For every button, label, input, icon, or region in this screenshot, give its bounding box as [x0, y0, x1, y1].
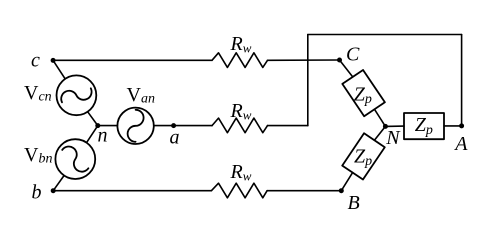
svg-text:N: N [385, 127, 401, 149]
node c junction dot [51, 58, 56, 63]
svg-text:C: C [346, 44, 360, 66]
impedance Zp phase C box [342, 70, 385, 116]
svg-text:A: A [453, 133, 468, 155]
wire Van to node a [154, 125, 174, 127]
wire c to top resistor [53, 59, 212, 61]
node N junction dot [383, 124, 388, 129]
wire Zp upper to node N [375, 109, 386, 126]
wire a to middle resistor [174, 125, 212, 127]
node n junction dot [95, 123, 100, 128]
wire bottom resistor to node B [267, 190, 341, 192]
wire Zp lower to node N [374, 126, 385, 140]
wire node N to impedance Zp right [385, 125, 404, 127]
wire Zp right to node A [444, 125, 462, 127]
resistor R_w top [212, 53, 268, 68]
svg-text:a: a [170, 127, 180, 149]
svg-text:b: b [32, 181, 42, 203]
wire middle resistor to corner [268, 125, 308, 127]
wire Vcn to node n [88, 112, 98, 126]
svg-text:n: n [98, 125, 108, 147]
svg-text:c: c [31, 50, 40, 72]
wire top resistor to node C [268, 59, 340, 61]
wire Vbn to node n [87, 126, 98, 143]
impedance Zp phase B box [342, 133, 385, 179]
node B junction dot [339, 188, 344, 193]
wire right drop of outer loop to node A [461, 35, 463, 126]
voltage source Vbn [55, 139, 95, 179]
wire top run of outer loop [308, 34, 462, 36]
wire node C to impedance Zp upper [340, 60, 353, 77]
node b junction dot [51, 188, 56, 193]
node a junction dot [171, 123, 176, 128]
node C junction dot [337, 58, 342, 63]
wire b to source Vbn [53, 176, 64, 191]
impedance Zp phase A box [404, 113, 444, 139]
voltage source Vcn [57, 75, 97, 115]
wire b to bottom resistor [53, 190, 211, 192]
resistor R_w bottom [211, 183, 267, 198]
wire n to source Van [98, 125, 118, 127]
wire c to source Vcn [53, 60, 65, 79]
voltage source Van [117, 108, 153, 144]
wire node B to impedance Zp lower [341, 173, 352, 191]
svg-text:B: B [348, 192, 360, 214]
node A junction dot [459, 123, 464, 128]
wire left riser of outer loop [307, 35, 309, 126]
resistor R_w middle [212, 118, 268, 133]
